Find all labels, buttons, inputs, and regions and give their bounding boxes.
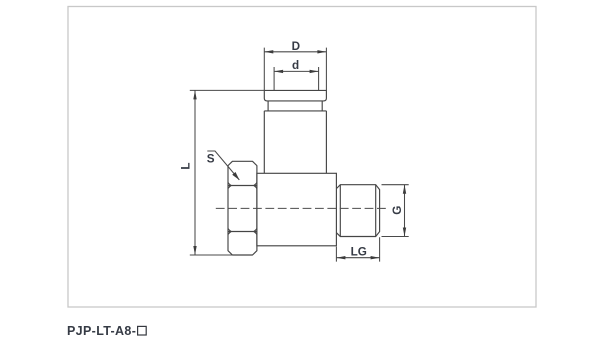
hex facet line upper [228,183,257,189]
arrowhead D left [264,50,273,53]
dimension d line [274,70,319,72]
hex nut outline [228,161,257,255]
dimension G line [404,185,406,237]
arrowhead d left [274,70,283,73]
centerline [216,207,388,209]
arrowhead D right [317,50,326,53]
svg-text:L: L [180,162,193,169]
arrowhead L bottom [193,246,196,255]
border frame [68,7,536,308]
arrowhead LG right [371,256,380,259]
threaded port outline [336,185,379,237]
dimension d extension lines [274,67,319,90]
svg-text:PJP-LT-A8-: PJP-LT-A8- [67,324,136,338]
svg-text:D: D [292,40,300,53]
horizontal body block [257,173,337,246]
dimension L line [194,90,196,255]
arrowhead G bottom [403,228,406,237]
leader line for S [207,151,239,180]
dimension D extension lines [264,48,326,91]
svg-text:S: S [207,153,215,166]
svg-text:d: d [292,59,299,72]
arrowhead LG left [336,256,345,259]
dimension LG extension lines [336,237,379,261]
arrowhead L top [193,90,196,99]
dimension L extension lines [190,90,264,255]
svg-text:G: G [391,206,404,215]
thread end chamfer line [375,185,377,237]
arrowhead G top [403,185,406,194]
neck below cap [268,101,322,111]
svg-text:LG: LG [351,246,367,259]
dimension D line [264,51,326,53]
thread start line [339,185,341,237]
arrowhead d right [310,70,319,73]
empty square in part number [138,326,147,335]
hex facet line lower [228,229,257,235]
vertical tube body [264,111,326,173]
dimension G extension lines [382,185,409,237]
arrowhead S leader [232,172,239,180]
dimension LG line [336,257,379,259]
top cap (release collet flange) [264,90,326,101]
